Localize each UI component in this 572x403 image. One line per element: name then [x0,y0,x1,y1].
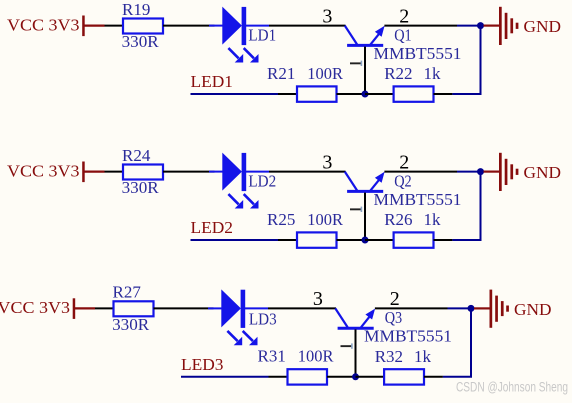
svg-text:2: 2 [399,151,409,173]
junction [468,305,475,312]
svg-text:VCC 3V3: VCC 3V3 [7,161,80,180]
svg-text:R24: R24 [122,146,151,165]
wire [470,308,472,376]
pin number 1 [350,207,362,212]
resistor R24 [123,165,163,180]
svg-text:MMBT5551: MMBT5551 [374,44,462,63]
wire [480,172,482,240]
svg-text:VCC 3V3: VCC 3V3 [7,15,80,34]
resistor R26 [394,232,434,247]
wire [163,25,215,27]
ground GND [484,7,562,45]
wire [375,307,469,309]
svg-text:MMBT5551: MMBT5551 [374,190,462,209]
svg-text:LED1: LED1 [191,72,234,91]
wire [269,25,346,27]
junction [362,91,369,98]
pin number 1 [350,61,362,66]
pin number 1 [341,343,353,348]
wire [434,93,482,95]
wire [105,25,124,27]
svg-text:GND: GND [514,300,552,319]
svg-text:GND: GND [524,17,562,36]
svg-text:R32: R32 [375,347,403,366]
svg-text:LED2: LED2 [191,218,234,237]
power port VCC_3V3 [7,15,105,36]
wire [269,171,346,173]
wire [337,93,366,95]
junction [352,373,359,380]
svg-text:LD1: LD1 [248,26,276,45]
power port VCC_3V3 [0,298,95,319]
resistor R19 [123,19,163,34]
svg-text:R27: R27 [113,283,142,302]
svg-text:100R: 100R [307,210,343,229]
svg-text:330R: 330R [112,315,150,334]
wire [365,239,394,241]
svg-text:3: 3 [322,5,332,27]
svg-text:VCC 3V3: VCC 3V3 [0,298,70,317]
svg-text:MMBT5551: MMBT5551 [364,327,452,346]
wire [365,93,394,95]
power port VCC_3V3 [7,161,105,182]
resistor R21 [297,86,337,101]
LED LD2 [209,153,269,209]
svg-text:1k: 1k [414,347,432,366]
svg-text:R26: R26 [384,210,412,229]
svg-text:330R: 330R [122,178,160,197]
resistor R32 [384,369,424,384]
wire [191,93,298,95]
wire [105,171,124,173]
LED LD1 [209,7,269,63]
svg-text:R25: R25 [267,210,295,229]
LED LD3 [208,289,268,345]
ground GND [474,290,552,328]
resistor R25 [297,232,337,247]
wire [337,239,366,241]
svg-text:Q3: Q3 [385,308,403,327]
svg-text:R21: R21 [267,64,295,83]
transistor Q3 [335,308,375,376]
svg-text:330R: 330R [122,32,160,51]
svg-text:3: 3 [313,288,323,310]
wire [384,25,478,27]
wire [268,307,336,309]
svg-text:GND: GND [524,163,562,182]
svg-text:R19: R19 [122,0,150,19]
wire [327,376,356,378]
svg-text:2: 2 [390,288,400,310]
wire [480,26,482,94]
svg-text:Q1: Q1 [394,25,412,44]
svg-text:3: 3 [322,151,332,173]
svg-text:1k: 1k [424,210,442,229]
resistor R27 [114,301,154,316]
svg-text:1k: 1k [424,64,442,83]
svg-text:R31: R31 [258,347,286,366]
wire [356,376,385,378]
svg-text:2: 2 [399,5,409,27]
svg-text:LED3: LED3 [181,355,224,374]
svg-text:LD2: LD2 [248,172,276,191]
ground GND [484,153,562,191]
wire [181,376,288,378]
svg-text:LD3: LD3 [249,309,277,328]
wire [191,239,298,241]
svg-text:CSDN @Johnson Sheng: CSDN @Johnson Sheng [456,380,568,395]
wire [384,171,478,173]
junction [477,22,484,29]
resistor R22 [394,86,434,101]
svg-text:Q2: Q2 [394,171,412,190]
wire [424,376,472,378]
transistor Q2 [345,172,385,240]
junction [362,237,369,244]
wire [154,307,214,309]
wire [163,171,215,173]
svg-text:R22: R22 [384,64,412,83]
junction [477,168,484,175]
wire [434,239,482,241]
transistor Q1 [345,26,385,94]
svg-text:100R: 100R [307,64,343,83]
svg-text:100R: 100R [298,347,334,366]
wire [95,307,114,309]
resistor R31 [288,369,328,384]
